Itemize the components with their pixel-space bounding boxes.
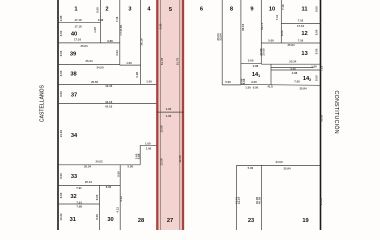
svg-text:42.18: 42.18 (105, 105, 113, 109)
wire: line under lot 40 (58, 42, 120, 44)
svg-text:5.00: 5.00 (128, 165, 134, 169)
svg-text:9: 9 (250, 7, 253, 13)
dimension labels horizontal (74, 18, 317, 209)
svg-text:33.04: 33.04 (219, 33, 223, 41)
svg-text:1.50: 1.50 (245, 85, 251, 89)
svg-text:1.00: 1.00 (146, 80, 152, 84)
svg-text:1.00: 1.00 (126, 61, 132, 65)
svg-text:12.06: 12.06 (159, 158, 163, 166)
svg-text:4.12: 4.12 (116, 207, 120, 213)
svg-text:41.8: 41.8 (267, 85, 273, 89)
svg-text:7.91: 7.91 (76, 186, 82, 190)
svg-text:1.08: 1.08 (93, 27, 97, 33)
svg-text:6.66: 6.66 (242, 78, 246, 84)
wire: vertical between lots 30 and 28 (119, 165, 121, 230)
street line CASTELLANOS (left block edge) (57, 0, 59, 230)
svg-text:32.73: 32.73 (260, 22, 264, 30)
street line CONSTITUCION (right block edge) (320, 0, 322, 230)
svg-text:28: 28 (138, 218, 144, 224)
svg-text:42.18: 42.18 (105, 84, 113, 88)
svg-text:3.03: 3.03 (115, 50, 119, 56)
wire: lot 23 left boundary (236, 165, 238, 230)
svg-text:12.09: 12.09 (178, 155, 182, 163)
svg-text:8.00: 8.00 (59, 30, 63, 36)
svg-text:7.41: 7.41 (275, 14, 279, 20)
svg-text:42.18: 42.18 (105, 100, 113, 104)
svg-text:5.00: 5.00 (248, 166, 254, 170)
wire: line under lot 11 (281, 23, 320, 25)
svg-text:19: 19 (302, 218, 308, 224)
svg-text:8.00: 8.00 (59, 173, 63, 179)
svg-text:12: 12 (301, 31, 307, 37)
wire: line under lot 38 (58, 83, 156, 85)
svg-text:38: 38 (70, 72, 76, 78)
svg-text:17.16: 17.16 (297, 24, 305, 28)
wire: line under lot 33 (58, 184, 120, 186)
svg-text:36.16: 36.16 (140, 38, 144, 46)
svg-text:8.00: 8.00 (117, 171, 121, 177)
svg-text:3: 3 (128, 7, 131, 13)
wire: step vertical right of lot 34 (139, 145, 141, 165)
svg-text:24.50: 24.50 (275, 160, 283, 164)
svg-text:8: 8 (230, 7, 233, 13)
wire: vertical between lots 32,31 and 30 (99, 185, 101, 230)
svg-text:9.88: 9.88 (107, 39, 113, 43)
svg-text:39: 39 (70, 52, 76, 58)
lot 5/27 gray boundary left (159, 0, 161, 230)
svg-text:8.00: 8.00 (315, 75, 319, 81)
svg-text:51.76: 51.76 (160, 58, 164, 66)
svg-text:0.98: 0.98 (135, 72, 139, 78)
wire: line under lot 34 (58, 164, 140, 166)
svg-text:31: 31 (70, 217, 76, 223)
wire: vertical between lot 23 and 19 (261, 165, 263, 230)
svg-text:25.84: 25.84 (287, 43, 295, 47)
svg-text:25.34: 25.34 (85, 59, 93, 63)
svg-text:9.00: 9.00 (251, 80, 257, 84)
svg-text:24.52: 24.52 (95, 159, 103, 163)
svg-text:7.16: 7.16 (298, 39, 304, 43)
svg-text:5.00: 5.00 (268, 39, 274, 43)
svg-text:2.08: 2.08 (292, 71, 298, 75)
svg-text:CONSTITUCIÓN: CONSTITUCIÓN (333, 91, 340, 134)
wire: vertical between lot 8 and 9 (240, 0, 242, 85)
svg-text:8.00: 8.00 (96, 7, 100, 13)
wire: line under lot 1 (58, 21, 101, 23)
svg-text:2: 2 (105, 7, 108, 13)
svg-text:8.00: 8.00 (59, 70, 63, 76)
svg-text:5.00: 5.00 (225, 80, 231, 84)
svg-text:8.00: 8.00 (59, 91, 63, 97)
svg-text:37: 37 (71, 93, 77, 99)
wire: vertical between 14a and 14b (270, 64, 272, 85)
svg-text:32: 32 (70, 194, 76, 200)
svg-text:5.00: 5.00 (248, 59, 254, 63)
svg-text:17.16: 17.16 (74, 38, 82, 42)
svg-text:17.16: 17.16 (74, 24, 82, 28)
svg-text:3.68: 3.68 (137, 153, 141, 159)
svg-text:12.06: 12.06 (159, 125, 163, 133)
svg-text:25.84: 25.84 (80, 44, 88, 48)
wire: step horizontal to strip (140, 144, 156, 146)
svg-text:50.00: 50.00 (319, 114, 323, 122)
svg-text:23: 23 (248, 218, 254, 224)
svg-text:41.47: 41.47 (237, 197, 241, 205)
lot number labels (70, 6, 312, 224)
svg-text:6.00: 6.00 (106, 185, 112, 189)
dimension labels vertical (rotated) (59, 4, 324, 221)
svg-text:8.00: 8.00 (59, 50, 63, 56)
wire: line under lots 10,12 (261, 42, 320, 44)
wire: line under lot 8 (222, 84, 241, 86)
svg-text:8.00: 8.00 (280, 30, 284, 36)
svg-text:33: 33 (71, 174, 77, 180)
svg-text:141: 141 (252, 72, 260, 78)
wire: lot 14a top line (241, 62, 261, 64)
wire: line under lot 39 (58, 64, 120, 66)
svg-text:7.00: 7.00 (294, 80, 300, 84)
svg-text:4.12: 4.12 (119, 196, 123, 202)
svg-text:25.34: 25.34 (84, 164, 92, 168)
svg-text:CASTELLANOS: CASTELLANOS (40, 84, 46, 122)
svg-text:25.34: 25.34 (85, 180, 93, 184)
svg-text:7.16: 7.16 (298, 18, 304, 22)
svg-text:8.00: 8.00 (315, 6, 319, 12)
svg-text:10: 10 (269, 7, 275, 13)
svg-text:0.98: 0.98 (59, 15, 63, 21)
svg-text:7.98: 7.98 (76, 205, 82, 209)
svg-text:26.50: 26.50 (91, 80, 99, 84)
wire: lot 11 and 12 left boundary (280, 0, 282, 43)
svg-text:51.79: 51.79 (175, 58, 179, 66)
svg-text:25.34: 25.34 (289, 60, 297, 64)
wire: vertical between lot 6 and 8 (221, 0, 223, 85)
svg-text:9.50: 9.50 (253, 85, 259, 89)
svg-text:8.00: 8.00 (59, 192, 63, 198)
svg-text:5: 5 (169, 7, 172, 13)
wire: line under lot 37 (58, 103, 156, 105)
wire: lot 14b lower parallel line (271, 69, 321, 71)
svg-text:36.16: 36.16 (241, 23, 245, 31)
svg-text:34: 34 (71, 133, 78, 139)
red highlight line right (182, 0, 184, 230)
svg-text:3.03: 3.03 (118, 30, 122, 36)
red highlight line left (156, 0, 158, 230)
wire: vertical between lot 3 and 4 (140, 0, 142, 84)
svg-text:8.00: 8.00 (315, 48, 319, 54)
wire: line under lot 39 right segment (120, 64, 141, 66)
svg-text:27: 27 (167, 218, 173, 224)
svg-text:7.16: 7.16 (281, 4, 285, 10)
svg-text:1.00: 1.00 (166, 107, 172, 111)
svg-text:8.00: 8.00 (95, 194, 99, 200)
svg-text:40.08: 40.08 (258, 197, 262, 205)
svg-text:142: 142 (303, 76, 311, 82)
svg-text:7.16: 7.16 (115, 16, 119, 22)
svg-text:0.98: 0.98 (159, 23, 163, 29)
svg-text:25.84: 25.84 (299, 86, 307, 90)
lot 5/27 gray boundary right (179, 0, 181, 230)
svg-text:1.00: 1.00 (145, 141, 151, 145)
svg-text:1.00: 1.00 (166, 114, 172, 118)
svg-text:11: 11 (301, 7, 307, 13)
wire: lot 14b upper parallel line (271, 67, 314, 69)
svg-text:20.55: 20.55 (261, 48, 265, 56)
svg-text:25.84: 25.84 (283, 166, 291, 170)
wire: top line of lots 23,19 (237, 164, 321, 166)
svg-text:1: 1 (74, 6, 77, 12)
svg-text:0.98: 0.98 (98, 18, 104, 22)
wire: vertical between lots 2,39 and 3 (119, 0, 121, 65)
svg-text:21.64: 21.64 (59, 130, 63, 138)
svg-text:1.00: 1.00 (311, 64, 317, 68)
wire: line under lot 32 (58, 203, 100, 205)
svg-text:30: 30 (107, 217, 113, 223)
svg-text:27.50: 27.50 (319, 197, 323, 205)
wire: line under lot 13 (261, 63, 320, 65)
svg-text:10.32: 10.32 (59, 213, 63, 221)
wire: line under lots 14a,14b (241, 83, 321, 86)
highlighted parcel strip (lots 5 & 27) pink fill (156, 0, 184, 230)
svg-text:13: 13 (301, 51, 307, 57)
svg-text:8.00: 8.00 (315, 29, 319, 35)
svg-text:3.65: 3.65 (119, 25, 123, 31)
svg-text:17.16: 17.16 (74, 18, 82, 22)
svg-text:0.98: 0.98 (253, 64, 259, 68)
wire: internal strip line between lot 5 and 27 (156, 111, 184, 113)
svg-text:7.16: 7.16 (320, 65, 324, 71)
svg-text:8.00: 8.00 (95, 214, 99, 220)
svg-text:6: 6 (200, 7, 203, 13)
svg-text:1.00: 1.00 (146, 147, 152, 151)
wire: vertical between lot 9 and 10 (260, 0, 262, 64)
svg-text:24.50: 24.50 (96, 66, 104, 70)
wire: vertical between lots 1,40 and 2 (100, 0, 102, 43)
